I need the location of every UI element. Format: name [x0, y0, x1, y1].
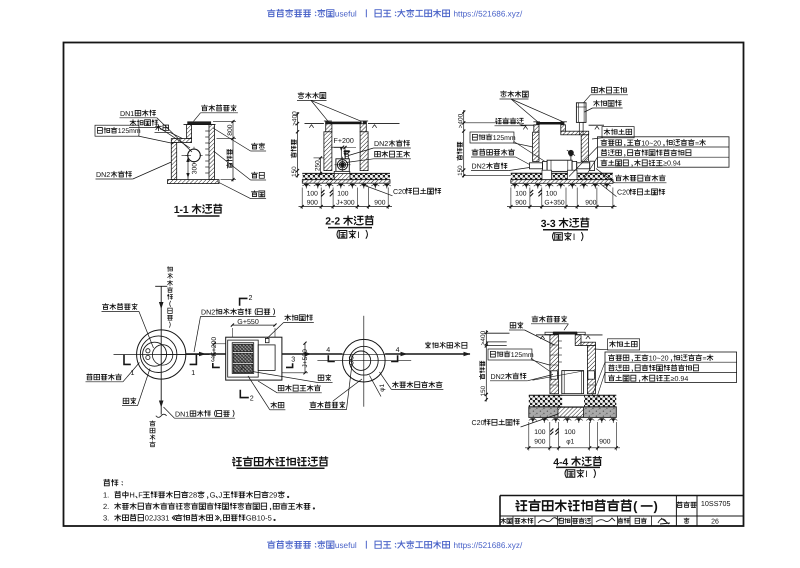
tb name1 [515, 519, 520, 524]
svg-text:≥0.94: ≥0.94 [663, 160, 681, 168]
svg-text:≥0.94: ≥0.94 [671, 375, 689, 383]
svg-text:G+550: G+550 [237, 318, 259, 326]
label jingtong [251, 150, 267, 152]
cabinet 3-3 [576, 103, 586, 123]
label jingji [251, 198, 267, 200]
svg-text:900: 900 [534, 439, 545, 446]
svg-text:26: 26 [711, 518, 719, 525]
svg-text:3: 3 [211, 355, 215, 363]
label tabu box [317, 381, 333, 383]
label zhuanqi-125 1-1 [95, 125, 139, 136]
svg-text:I: I [573, 232, 576, 242]
svg-text:F+200: F+200 [211, 337, 218, 356]
label jie-fuhe 3-3 [615, 182, 667, 184]
label gaiban 1-1 [155, 131, 171, 133]
title block main [516, 501, 526, 511]
svg-text:DN1: DN1 [120, 110, 134, 118]
svg-text:H: H [129, 491, 134, 500]
plan pipe box to filter well [282, 353, 343, 355]
tb sheji [618, 518, 623, 523]
label jinggai plan-left [102, 310, 139, 312]
svg-text:): ) [654, 499, 658, 514]
svg-text:C20: C20 [617, 189, 630, 197]
svg-text:100: 100 [534, 429, 545, 436]
tb name2 [573, 519, 578, 524]
svg-text:125mm: 125mm [511, 352, 534, 359]
svg-text:C20: C20 [472, 419, 485, 427]
section marker 1 right [190, 355, 197, 365]
svg-text:02J331: 02J331 [145, 514, 170, 523]
svg-text:>400: >400 [457, 113, 464, 128]
plan pipe to storage [385, 353, 470, 355]
plan pipe DN2 to box [161, 354, 186, 356]
svg-text:DN2: DN2 [374, 140, 388, 148]
backfill table 4-4 [605, 352, 737, 382]
svg-text:F+200: F+200 [334, 137, 354, 145]
label tabu left [122, 405, 138, 407]
svg-text:250: 250 [314, 160, 321, 171]
dim F+200 plan [213, 344, 215, 359]
svg-text:J+500: J+500 [302, 349, 309, 368]
dim 1-1 right [232, 121, 234, 182]
label C20 2-2 [362, 185, 393, 196]
svg-text:100: 100 [546, 191, 557, 198]
title block grid [499, 496, 501, 527]
plan text jie bottom [150, 421, 155, 426]
plan safety diverting well [137, 330, 186, 379]
svg-text:900: 900 [585, 200, 596, 207]
svg-text:DN1: DN1 [175, 410, 189, 418]
label zhuanqi-125 3-3 [470, 132, 514, 143]
label gaiban plan [270, 409, 286, 411]
svg-text:G: G [210, 491, 216, 500]
label jinggai 4-4 [531, 323, 568, 325]
svg-text:G+350: G+350 [544, 200, 565, 207]
svg-text:150: 150 [291, 166, 298, 177]
dim 2-2 left [297, 112, 299, 178]
label jinggai plan-right [309, 409, 346, 411]
tb sig3 [658, 518, 670, 524]
svg-text:125mm: 125mm [493, 135, 516, 142]
svg-text:10~20: 10~20 [641, 139, 661, 147]
label C20 3-3 [600, 184, 617, 197]
svg-text:10~20: 10~20 [649, 355, 669, 363]
plan controller well box [226, 337, 282, 380]
svg-text:DN2: DN2 [96, 171, 110, 179]
svg-text:useful: useful [335, 10, 357, 19]
svg-text:2.: 2. [103, 502, 109, 511]
foundation 2-2 [302, 173, 334, 179]
svg-text:29: 29 [269, 491, 277, 500]
foundation 4-4 [529, 395, 562, 407]
svg-text:1.: 1. [103, 491, 109, 500]
svg-text:2-2: 2-2 [325, 217, 340, 228]
svg-text:1: 1 [131, 369, 135, 377]
svg-text:150: 150 [480, 385, 487, 396]
tb sig2 [596, 518, 615, 522]
section marker 2 bottom [240, 390, 249, 398]
foundation 3-3 [511, 173, 542, 179]
label jie-anquan 3-3 [471, 156, 516, 158]
label tabu 4-4 [509, 329, 525, 331]
watermark bottom [268, 541, 276, 548]
svg-text:125mm: 125mm [118, 128, 141, 135]
backfill table 3-3 [597, 137, 729, 167]
dim G+550 [232, 324, 275, 326]
label DN1 plan [175, 417, 236, 419]
plan text rain collect [167, 266, 172, 271]
svg-text:DN2: DN2 [491, 373, 505, 381]
device assembly 3-3 [530, 163, 543, 169]
svg-text:I: I [585, 469, 588, 479]
tb name3 [635, 518, 639, 523]
svg-text:100: 100 [515, 191, 526, 198]
svg-text:GB10-5: GB10-5 [246, 514, 272, 523]
label hubian-jiaogang 3-3 [501, 91, 507, 97]
label hubian-jiaogang 2-2 [298, 92, 304, 98]
label huitian 4-4 [608, 339, 640, 350]
label DN2-rain plan [201, 315, 276, 317]
tb sig1 [538, 518, 562, 523]
label zhuanqi-125 4-4 [488, 349, 532, 360]
dim 4-4 left [485, 330, 487, 402]
svg-text:2: 2 [249, 294, 253, 302]
label DN1 qiliuguan [120, 117, 157, 119]
drawing frame [64, 43, 744, 527]
svg-text:100: 100 [337, 191, 348, 198]
label jingbi [251, 179, 267, 181]
device qiliu controller 2-2 [331, 146, 343, 148]
svg-text:900: 900 [307, 200, 318, 207]
svg-text:900: 900 [599, 439, 610, 446]
label qiliu-controller 2-2 [374, 158, 411, 160]
svg-text:useful: useful [335, 541, 357, 550]
title block tujihao [677, 502, 682, 508]
svg-text:(: ( [633, 499, 638, 514]
label DN2 4-4 [490, 380, 527, 382]
dim F+200 2-2 [334, 147, 356, 149]
svg-text:>400: >400 [291, 111, 298, 126]
label fuhe-filter-well [391, 388, 443, 390]
section 1-1 well structure [187, 121, 211, 124]
tb jiaodui [559, 518, 563, 523]
plan composite filter well [363, 316, 365, 407]
dims 2-2 bottom [301, 188, 303, 210]
label DN2 shoujiguan 2-2 [374, 147, 411, 149]
section marker 2 top [240, 298, 248, 305]
svg-text:DN2: DN2 [201, 309, 215, 317]
svg-text:https://521686.xyz/: https://521686.xyz/ [454, 10, 523, 19]
dim J+500 plan [304, 343, 306, 373]
svg-text:3-3: 3-3 [541, 219, 556, 230]
svg-text:100: 100 [564, 429, 575, 436]
label DN2 3-3 [471, 170, 508, 172]
label yumai plan [284, 321, 314, 323]
svg-text:3: 3 [291, 356, 295, 364]
svg-text:>400: >400 [480, 330, 487, 345]
svg-text:300: 300 [192, 163, 199, 174]
notes shuoming [104, 479, 110, 486]
watermark top [268, 9, 276, 16]
svg-text:2: 2 [250, 395, 254, 403]
svg-text:J+300: J+300 [336, 200, 355, 207]
svg-text:4: 4 [326, 346, 330, 354]
label waidimian 3-3 [495, 125, 525, 127]
section 2-2 well walls [305, 123, 324, 125]
label phi1 plan [370, 376, 382, 397]
svg-text:=: = [703, 355, 707, 363]
label qiliu-cabinet 3-3 [591, 94, 628, 96]
svg-text:φ1: φ1 [566, 439, 574, 446]
svg-text:F: F [138, 491, 143, 500]
dim 3-3 left [463, 110, 465, 178]
svg-text:10SS705: 10SS705 [701, 499, 731, 508]
section 3-3 well walls [521, 124, 534, 126]
svg-text:=: = [695, 139, 699, 147]
svg-text:4: 4 [396, 346, 400, 354]
label DN2 shoujiguan 1-1 [96, 178, 133, 180]
svg-text:C20: C20 [393, 188, 406, 196]
label jinggai-zhizuo 1-1 [201, 112, 238, 114]
tb ye [684, 518, 689, 523]
label anquan-fenliu [86, 381, 123, 383]
plan axis left well [160, 286, 162, 414]
tb shenhe [501, 518, 506, 523]
dim 300 [187, 155, 189, 179]
svg-text:1-1: 1-1 [174, 205, 189, 216]
svg-text:https://521686.xyz/: https://521686.xyz/ [454, 541, 523, 550]
dims 3-3 bottom [510, 188, 512, 210]
svg-text:3.: 3. [103, 514, 109, 523]
title plan view [233, 457, 242, 465]
svg-text:φ1: φ1 [379, 383, 386, 391]
svg-text:100: 100 [307, 191, 318, 198]
label yumai-gangguan 3-3 [593, 107, 623, 109]
svg-text:J: J [219, 491, 223, 500]
svg-text:28: 28 [189, 491, 197, 500]
label qiliu-controller-well [277, 392, 322, 394]
svg-text:900: 900 [515, 200, 526, 207]
svg-text:1: 1 [191, 369, 195, 377]
svg-text:900: 900 [374, 200, 385, 207]
label huitian 3-3 [602, 127, 634, 138]
svg-text:DN2: DN2 [472, 163, 486, 171]
label C20 4-4 [521, 414, 558, 427]
dims 4-4 bottom [528, 422, 530, 451]
section marker 1 left [124, 355, 131, 365]
label to storage [425, 342, 430, 348]
section 4-4 well structure [553, 332, 577, 335]
svg-text:800: 800 [227, 124, 234, 135]
label yumai-gangguan 1-1 [129, 126, 159, 128]
svg-text:I: I [357, 230, 360, 240]
dim 250 2-2 [319, 158, 321, 174]
svg-text:150: 150 [457, 165, 464, 176]
